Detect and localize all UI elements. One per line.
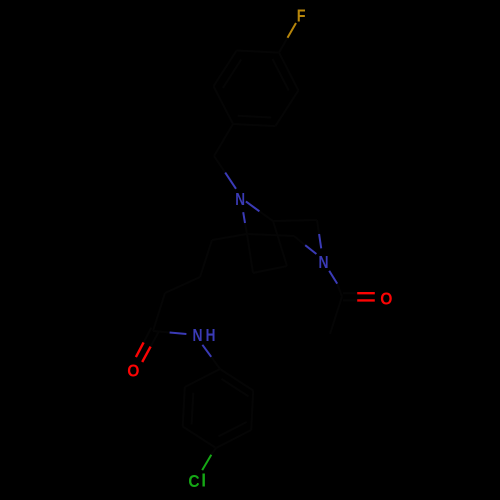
wire: fluorophenyl ring edge T4-T5 [214,86,234,124]
wire: bond T4-CH2 [214,124,233,156]
wire: chain CH2a-CH2b [200,240,212,277]
wire: fluorophenyl ring edge T6-T1 [237,51,279,53]
svg-text:F: F [297,5,306,25]
bond N2-Cacyl blue half [329,271,337,284]
wire: fluorophenyl ring inner double T1-T2 [273,59,289,91]
wire: bond C7-C6 [253,266,287,273]
svg-text:C: C [188,471,200,491]
wire: fluorophenyl ring inner double T3-T4 [238,116,272,118]
wire: bond Cb-Cd [247,234,294,236]
wire: bond N2-Cacyl dark half [337,284,342,297]
wire: chain CH2c-Cleft [153,293,165,331]
wire: bond N2-Cc dark half [317,220,319,234]
wire: left C=O dark halves [144,328,152,343]
wire: chlorophenyl ring edge B4-B5 [183,427,216,449]
wire: NH-B1 dark half [211,357,220,369]
wire: bond Ca-Cc [273,220,317,221]
wire: chlorophenyl ring edge B5-B6 [183,387,185,427]
svg-text:H: H [206,325,216,345]
wire: chain CH2b-CH2c [165,277,200,293]
wire: chlorophenyl ring edge B6-B1 [185,369,220,387]
bond N2-Cc blue half [319,234,321,248]
wire: bond C6-Ca [273,221,287,266]
left C=O red halves [136,342,144,357]
wire: bond F dark half [279,38,288,53]
wire: chlorophenyl ring edge B2-B3 [251,391,253,431]
wire: chlorophenyl ring inner double B1-B2 [222,379,249,397]
wire: fluorophenyl ring inner double T5-T6 [223,60,241,88]
wire: chlorophenyl ring inner double B3-B4 [219,422,247,437]
wire: fluorophenyl ring edge T5-T6 [214,51,237,87]
wire: acetyl methyl stub [330,297,342,335]
wire: bond Cl dark half [211,448,216,455]
bond N1-Ca blue half [246,201,260,211]
acetyl C=O red halves [357,292,375,294]
amide N-B1 blue half [202,345,211,357]
svg-text:O: O [127,360,139,380]
wire: bond CH2-N1 dark half [214,156,225,173]
bond N1-CH2 blue half [225,173,236,189]
svg-text:O: O [380,288,392,308]
bond F gold half [288,23,297,38]
wire: chlorophenyl ring edge B3-B4 [216,430,251,448]
svg-text:N: N [319,252,329,272]
wire: bond N1-Cb dark half [245,223,247,234]
wire: chain Cb-CH2a [212,234,247,240]
wire: fluorophenyl ring edge T1-T2 [279,53,298,91]
wire: chlorophenyl ring inner double B5-B6 [192,393,194,425]
svg-text:N: N [235,189,245,209]
wire: bond N2-Cd dark half [294,236,305,245]
wire: bond Cb-C7 [247,234,253,273]
svg-text:l: l [201,471,206,491]
wire: bond N1-Ca dark half [259,211,273,221]
wire: amide C-N dark half [153,331,170,333]
amide N-C blue half [170,333,187,335]
wire: chlorophenyl ring edge B1-B2 [220,369,253,391]
wire: fluorophenyl ring edge T3-T4 [233,124,275,126]
bond N2-Cd blue half [305,245,316,254]
bond Cl green half [202,455,211,470]
wire: acetyl C=O dark halves [343,292,357,294]
bond N1-Cb blue half [243,212,245,223]
svg-text:N: N [193,325,203,345]
wire: fluorophenyl ring edge T2-T3 [275,90,298,126]
